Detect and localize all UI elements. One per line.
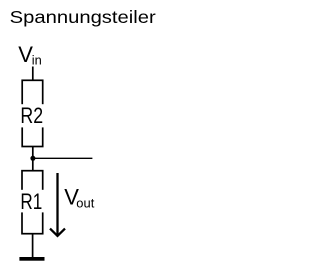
wire R2 to R1 <box>32 147 34 172</box>
ground <box>19 257 44 261</box>
svg-text:out: out <box>76 195 94 210</box>
wire R1 to ground <box>32 234 34 258</box>
node Vin label <box>18 42 42 67</box>
node Vout label <box>64 184 94 210</box>
arrow Vout <box>50 173 65 236</box>
svg-text:R1: R1 <box>20 189 42 214</box>
svg-text:R2: R2 <box>20 103 43 128</box>
svg-text:in: in <box>32 52 42 67</box>
resistor R1 <box>20 171 44 234</box>
svg-text:Spannungsteiler: Spannungsteiler <box>10 7 156 27</box>
node junction dot <box>30 156 35 161</box>
wire Vin to R2 <box>32 67 34 82</box>
wire node stub right <box>33 157 93 159</box>
resistor R2 <box>20 80 44 146</box>
